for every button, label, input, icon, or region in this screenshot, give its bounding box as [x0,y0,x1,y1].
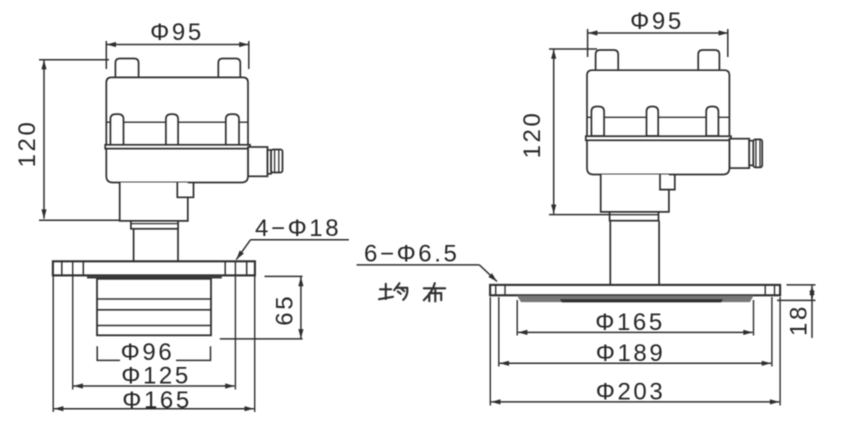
neck lower right [610,221,659,285]
collar inner line right [610,214,659,216]
dim PHI165 left extension lines [52,276,54,412]
diaphragm disc dark edge [560,299,723,302]
cylinder line 1 left [97,298,211,300]
cable gland block left [248,147,268,176]
label JUNBU glyph JUN right part [394,283,407,300]
collar right [610,212,659,221]
extension line PHI95 right-right [727,29,729,57]
rib tab right-1 [591,107,604,137]
dim line PHI95 left [107,44,249,46]
label 4-PHI18 leader [236,240,250,260]
housing lower body left [106,149,248,183]
housing inner line right [587,116,729,118]
dim PHI203 extension lines [489,297,491,406]
dim PHI165 right extension lines [516,300,518,336]
svg-text:65: 65 [271,294,298,326]
rib tab right-3 [706,107,718,137]
bolt left-top-2 [218,59,240,78]
extension line PHI95 left-left [105,41,107,69]
dim line PHI165 left [54,408,254,410]
housing inner line left [106,121,248,123]
cable gland ring left [268,150,272,174]
cable gland block right [729,139,749,168]
neck upper left [120,183,188,221]
housing upper body left [106,77,248,145]
cable gland nut facet lines left [274,150,276,173]
dim 65 extension bottom [220,338,303,340]
dim line PHI189 [500,362,771,364]
label 4-PHI18 underline [251,239,349,241]
rib tab left-1 [110,114,123,145]
svg-text:120: 120 [519,111,546,159]
svg-text:Φ95: Φ95 [150,19,204,46]
extension line 120 right-top [549,48,597,50]
flange left [53,261,255,275]
dim PHI189 extension lines [498,297,500,367]
label JUNBU (evenly spaced) glyph JUN left radical [379,283,445,301]
cable gland nut right [753,139,762,167]
diaphragm cylinder left [97,279,211,336]
label 6-PHI6.5 leader [479,265,497,282]
housing upper body right [587,70,729,136]
flange slab right [490,285,780,295]
cable gland nut facet lines right [755,139,757,167]
conduit tab under body left [177,183,193,198]
svg-text:6−Φ6.5: 6−Φ6.5 [364,241,459,268]
diaphragm disc right [517,296,754,303]
bolt left-top-1 [115,59,138,78]
cylinder line 3 left [97,325,211,327]
collar left [131,221,178,229]
housing lower body right [587,140,729,174]
flange bolt hole lines left [61,261,63,275]
svg-text:18: 18 [785,304,812,336]
label 6-PHI6.5 underline [357,264,480,266]
neck lower left [134,229,178,261]
rib tab left-2 [166,114,178,145]
joint band left [105,145,250,149]
cylinder line 2 left [97,309,211,311]
dim line 120 left [43,60,45,219]
extension line 120 left-bottom [39,219,129,221]
bolt right-top-1 [596,50,619,70]
bolt right-top-2 [698,50,719,70]
dim line 65 [300,277,302,339]
svg-text:120: 120 [14,120,41,168]
dim line PHI95 right [588,32,728,34]
svg-text:Φ165: Φ165 [122,387,192,414]
extension line 120 right-bottom [549,214,610,216]
extension line PHI95 left-right [248,41,250,69]
dim 18 extension top [787,284,816,286]
svg-text:Φ95: Φ95 [630,8,684,35]
joint band right [586,136,731,140]
svg-text:4−Φ18: 4−Φ18 [255,215,341,242]
cable gland ring right [749,141,753,166]
raised face band left [87,276,222,279]
conduit tab under body right [660,175,675,190]
extension line 120 left-top [39,59,109,61]
cable gland nut left [271,150,282,173]
dim line 120 right [553,49,555,214]
dim 18 line with arrows [811,286,813,299]
dim PHI125 extension lines [72,262,74,390]
dim line PHI125 [74,385,235,387]
dim line PHI203 [491,401,779,403]
collar inner line left [131,223,178,225]
rib tab left-3 [226,114,239,145]
rib tab right-2 [647,107,659,137]
label JUNBU glyph BU [424,283,445,301]
neck upper right [601,175,669,212]
dim line PHI165 right [518,331,753,333]
dim 65 extension top [265,275,303,277]
dim 18 extension bottom [777,299,816,301]
flange hole lines right flange [495,285,497,295]
extension line PHI95 right-left [587,29,589,57]
